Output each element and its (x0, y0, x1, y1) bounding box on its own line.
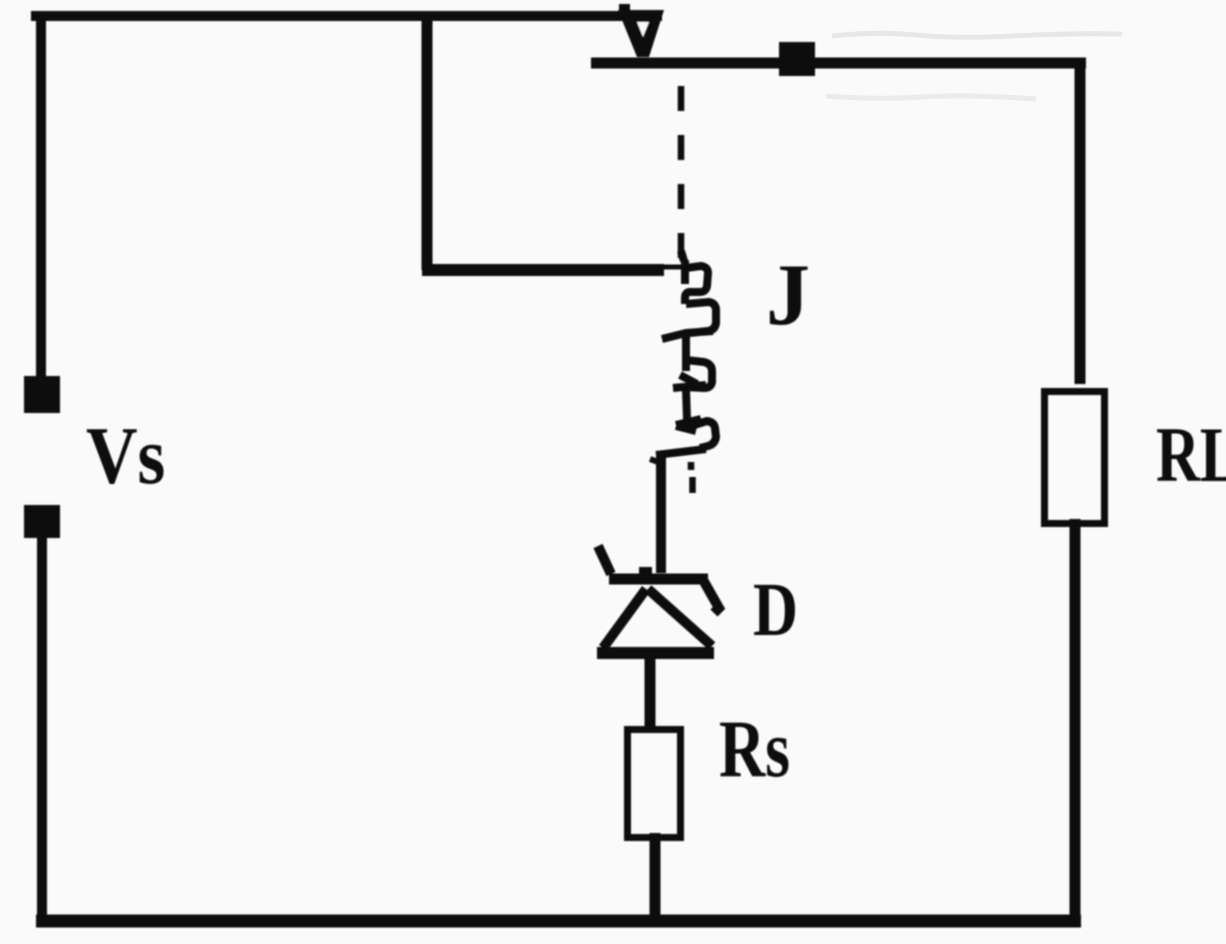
wire coil to diode (656, 452, 666, 573)
wire branch vertical (422, 13, 433, 270)
diode D anode nub (639, 567, 652, 575)
wire bottom horizontal (36, 915, 1081, 928)
junction node (779, 42, 815, 76)
wire branch thin extension (660, 265, 688, 270)
wire diode to Rs (645, 659, 656, 730)
diode D base bar (597, 647, 714, 659)
diode D triangle right diagonal (648, 589, 712, 646)
switch moving contact arrow (618, 4, 664, 57)
svg-text:Vs: Vs (86, 410, 165, 501)
faint ghost mark lower (826, 96, 1036, 99)
wire right vertical lower (1070, 519, 1081, 921)
svg-text:J: J (766, 247, 810, 344)
wire branch horizontal to coil (422, 264, 664, 276)
svg-text:D: D (753, 568, 798, 652)
wire left vertical lower (37, 537, 47, 921)
battery Vs terminal bottom (24, 505, 60, 538)
wire switch fixed contact (591, 58, 1086, 69)
diode D right wing (702, 578, 719, 613)
wire right vertical upper (1075, 58, 1086, 384)
dashed mechanical link (678, 86, 685, 262)
resistor RL (1045, 392, 1105, 524)
dashed link lower dashes (691, 462, 693, 493)
resistor Rs (628, 730, 681, 838)
battery Vs terminal top (24, 376, 60, 413)
wire left vertical upper (36, 11, 46, 378)
diode D left wing (598, 546, 611, 574)
diode D triangle left side (603, 589, 646, 648)
faint ghost mark upper (832, 33, 1122, 37)
diode D cathode bar (609, 574, 708, 585)
relay coil J (656, 251, 716, 455)
coil left nub (650, 459, 658, 462)
svg-text:Rs: Rs (719, 702, 790, 793)
wire Rs to bottom (650, 833, 661, 921)
wire top horizontal (31, 11, 662, 21)
svg-text:RL: RL (1156, 413, 1226, 499)
